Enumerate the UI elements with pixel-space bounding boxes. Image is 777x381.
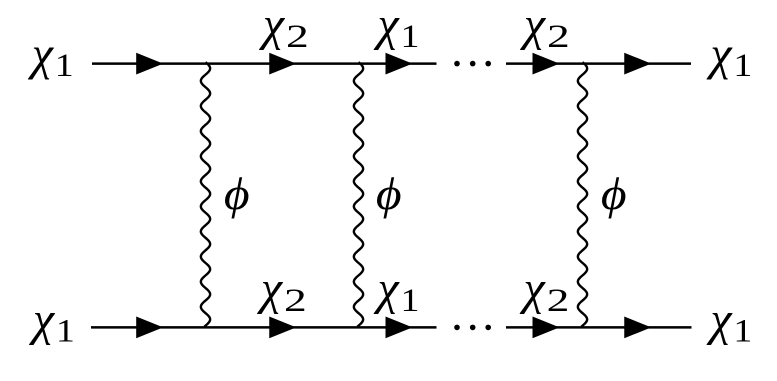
svg-text:2: 2: [284, 282, 307, 319]
label phi (middle ladder rung): [376, 170, 402, 220]
arrow 1 on top fermion line: [136, 53, 163, 75]
svg-text:χ: χ: [520, 0, 547, 51]
svg-text:1: 1: [56, 312, 75, 349]
svg-text:χ: χ: [374, 0, 401, 51]
arrow 3 on bottom fermion line: [386, 317, 413, 339]
svg-text:ϕ: ϕ: [376, 170, 402, 220]
svg-text:1: 1: [733, 47, 752, 84]
svg-text:1: 1: [401, 281, 420, 318]
arrow 2 on top fermion line: [269, 53, 296, 75]
boson propagator phi: middle wavy ladder rung: [354, 62, 363, 327]
svg-text:χ: χ: [520, 262, 547, 315]
wire: bottom fermion line, right portion: [506, 326, 692, 329]
svg-text:χ: χ: [257, 262, 284, 315]
boson propagator phi: left wavy ladder rung: [201, 62, 210, 327]
svg-text:χ: χ: [29, 293, 56, 346]
svg-text:χ: χ: [374, 262, 401, 315]
arrow 5 on top fermion line: [624, 53, 651, 75]
arrow 4 on top fermion line: [533, 53, 560, 75]
svg-text:ϕ: ϕ: [601, 170, 627, 220]
svg-text:ϕ: ϕ: [224, 170, 250, 220]
wire: top fermion line, left portion: [92, 62, 437, 65]
arrow 3 on top fermion line: [386, 53, 413, 75]
ellipsis dots on top fermion line: [454, 61, 460, 67]
arrow 4 on bottom fermion line: [533, 317, 560, 339]
ellipsis dots on bottom fermion line: [454, 325, 460, 331]
svg-text:2: 2: [547, 282, 570, 319]
arrow 2 on bottom fermion line: [269, 317, 296, 339]
label phi (left ladder rung): [224, 170, 250, 220]
label phi (right ladder rung): [601, 170, 627, 220]
svg-text:1: 1: [401, 17, 420, 54]
svg-text:χ: χ: [28, 27, 55, 80]
svg-text:χ: χ: [259, 0, 286, 51]
svg-text:2: 2: [286, 18, 309, 55]
wire: bottom fermion line, left portion: [91, 326, 437, 329]
arrow 1 on bottom fermion line: [136, 317, 163, 339]
svg-text:1: 1: [733, 312, 752, 349]
svg-text:1: 1: [55, 47, 74, 84]
boson propagator phi: right wavy ladder rung: [578, 62, 587, 327]
svg-text:2: 2: [547, 18, 570, 55]
svg-text:χ: χ: [706, 293, 733, 346]
svg-text:χ: χ: [706, 27, 733, 80]
arrow 5 on bottom fermion line: [624, 317, 651, 339]
wire: top fermion line, right portion: [506, 62, 691, 65]
